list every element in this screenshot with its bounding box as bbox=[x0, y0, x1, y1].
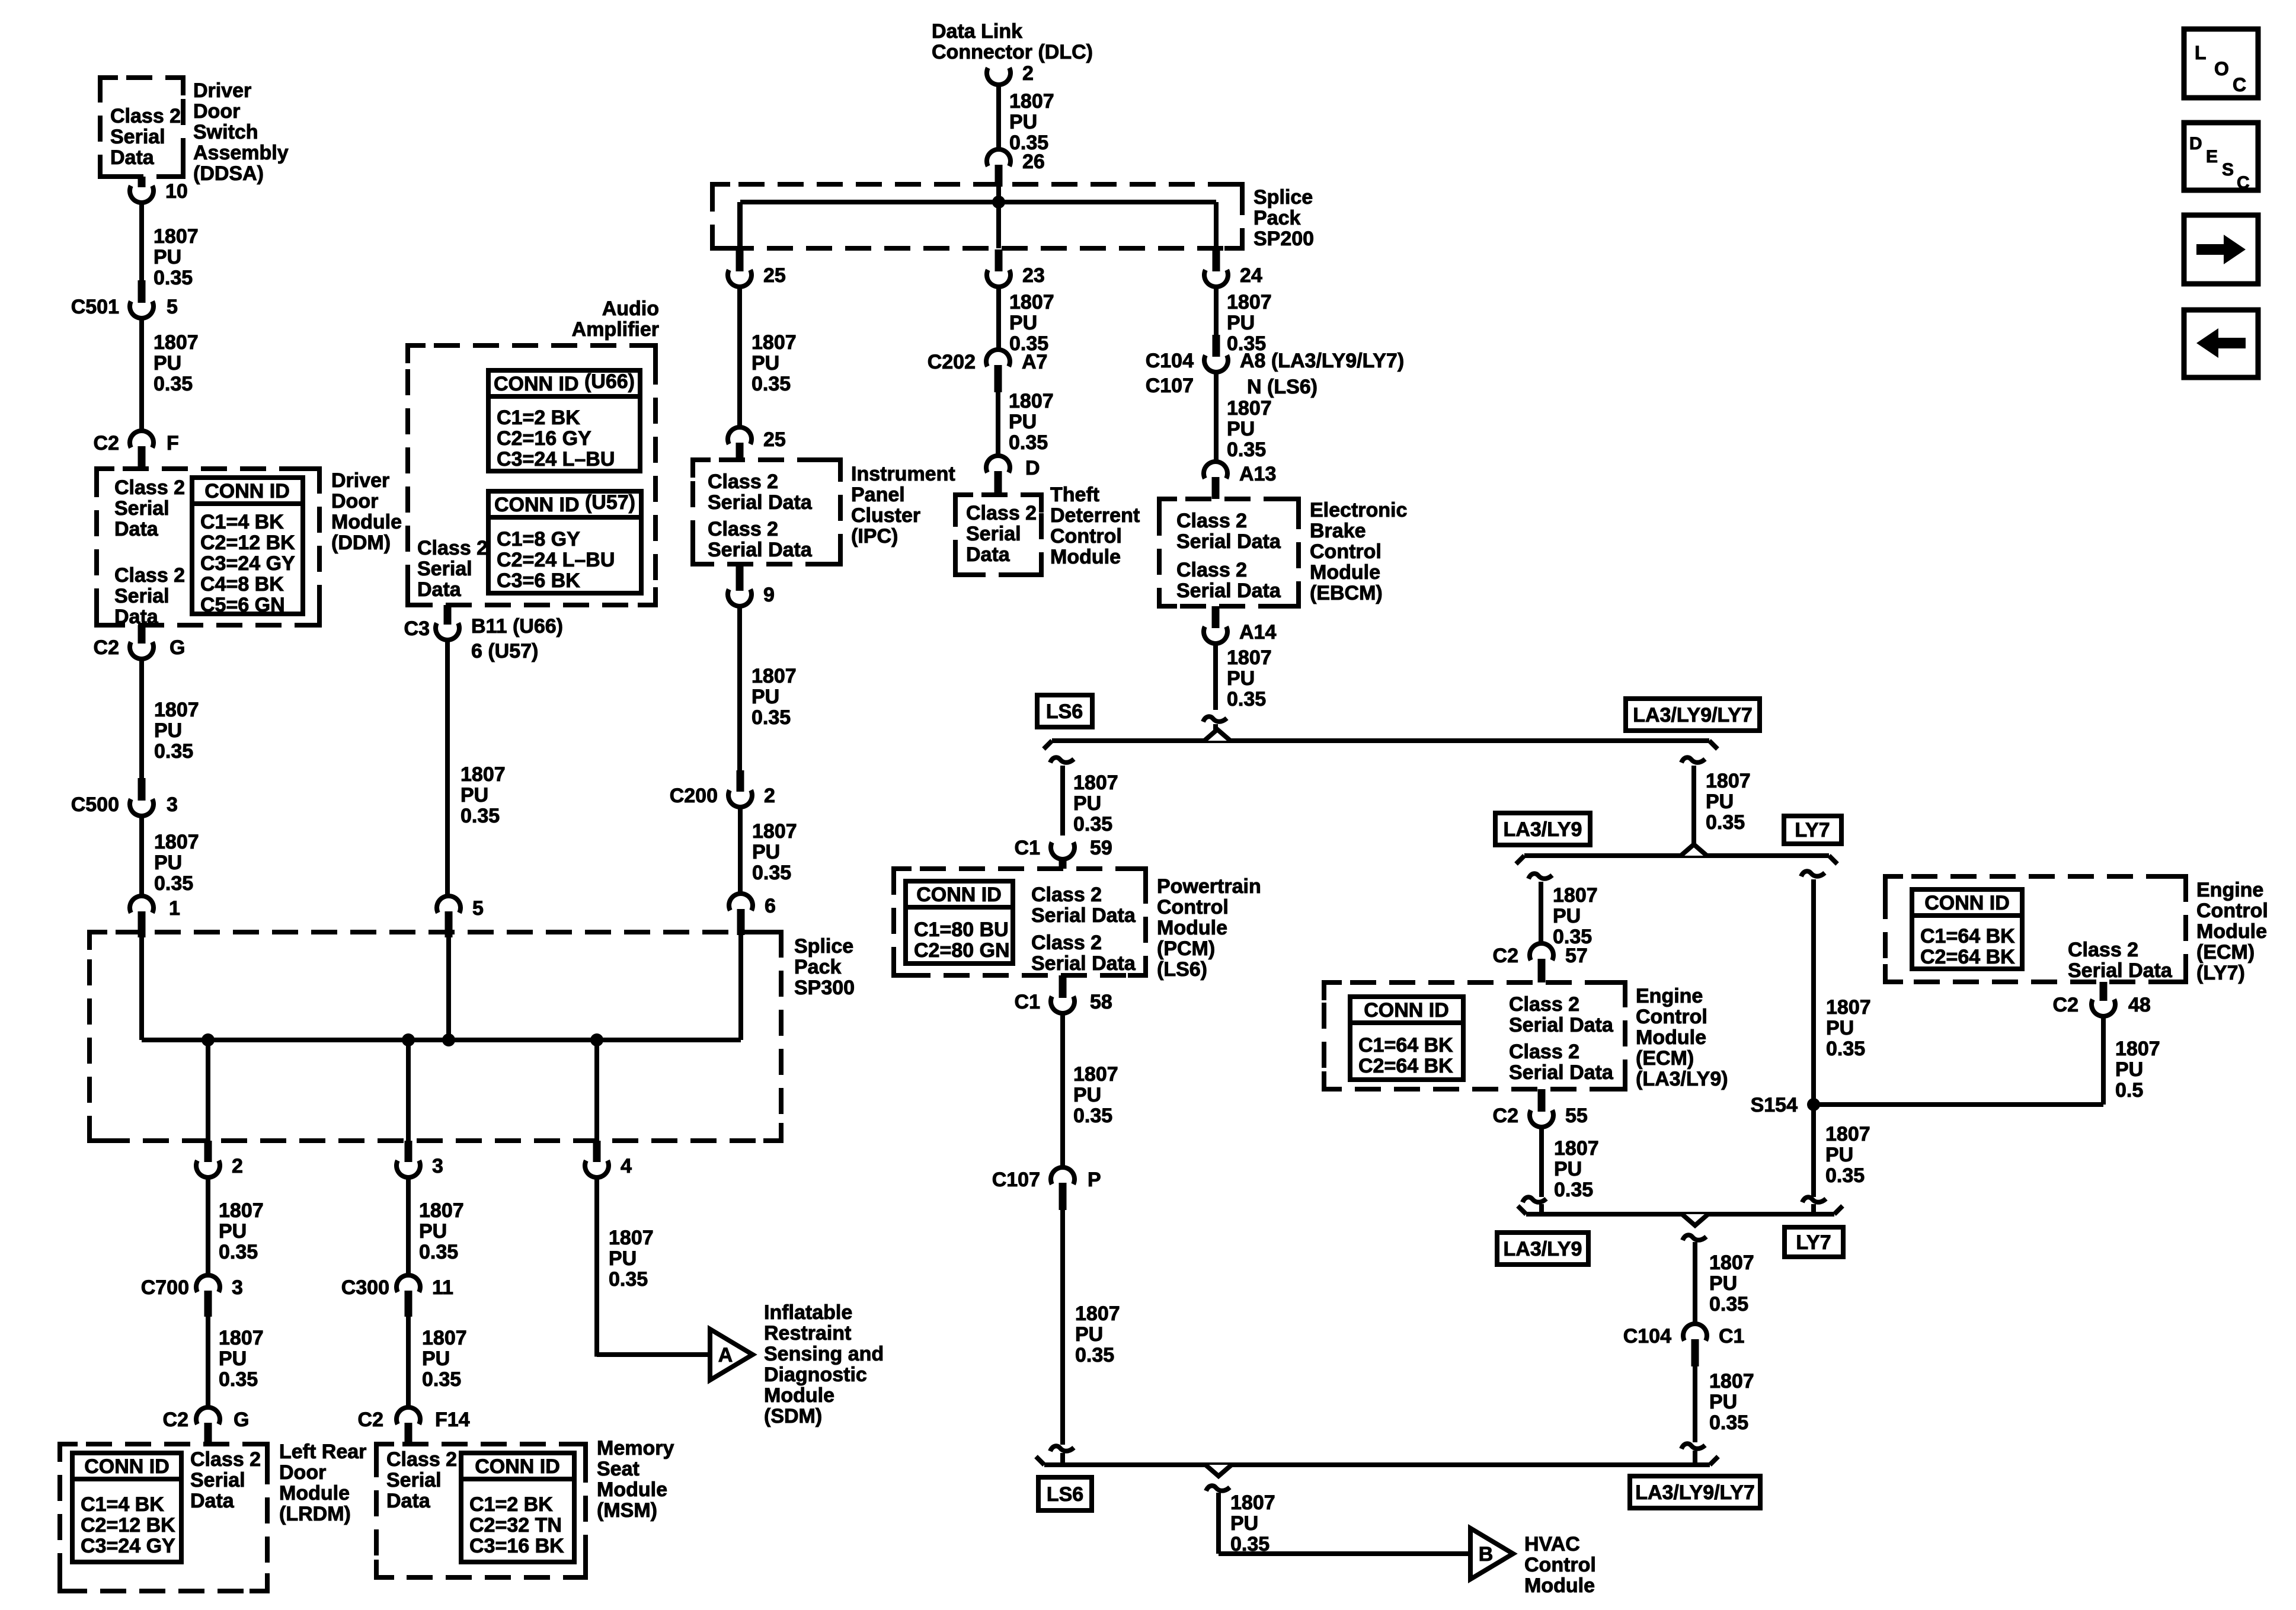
svg-text:PU: PU bbox=[419, 1220, 447, 1243]
svg-text:Left Rear: Left Rear bbox=[279, 1441, 366, 1463]
svg-text:PU: PU bbox=[154, 852, 182, 874]
svg-text:0.35: 0.35 bbox=[154, 373, 193, 395]
svg-text:55: 55 bbox=[1565, 1105, 1588, 1127]
svg-text:C2=64 BK: C2=64 BK bbox=[1920, 946, 2015, 968]
svg-text:Powertrain: Powertrain bbox=[1157, 875, 1261, 898]
svg-text:Data: Data bbox=[966, 543, 1011, 566]
svg-text:PU: PU bbox=[1073, 792, 1101, 815]
svg-text:S: S bbox=[2222, 160, 2234, 180]
svg-text:C2=32 TN: C2=32 TN bbox=[469, 1514, 562, 1537]
svg-text:Amplifier: Amplifier bbox=[572, 318, 659, 341]
svg-text:Audio: Audio bbox=[602, 297, 659, 320]
svg-text:C5=6 GN: C5=6 GN bbox=[200, 594, 285, 616]
svg-text:C2: C2 bbox=[2053, 994, 2078, 1016]
svg-text:Class 2: Class 2 bbox=[1031, 884, 1102, 906]
svg-text:Module: Module bbox=[2196, 920, 2267, 943]
svg-text:C2: C2 bbox=[1493, 945, 1518, 967]
svg-text:0.35: 0.35 bbox=[1554, 1179, 1593, 1201]
svg-text:Sensing and: Sensing and bbox=[764, 1343, 884, 1365]
svg-text:Assembly: Assembly bbox=[193, 142, 289, 164]
svg-text:0.35: 0.35 bbox=[154, 740, 193, 763]
svg-text:(LY7): (LY7) bbox=[2196, 962, 2245, 984]
svg-text:5: 5 bbox=[472, 897, 484, 920]
svg-text:Control: Control bbox=[1310, 540, 1382, 563]
svg-text:Serial: Serial bbox=[110, 126, 165, 148]
svg-text:Door: Door bbox=[331, 490, 378, 513]
svg-text:PU: PU bbox=[1227, 418, 1255, 440]
svg-text:C2: C2 bbox=[358, 1409, 383, 1431]
svg-text:PU: PU bbox=[154, 246, 181, 268]
svg-text:0.35: 0.35 bbox=[419, 1241, 458, 1263]
svg-text:L: L bbox=[2195, 42, 2207, 63]
svg-text:C3=24 L–BU: C3=24 L–BU bbox=[497, 448, 615, 470]
svg-text:N (LS6): N (LS6) bbox=[1247, 376, 1318, 398]
svg-text:C3=24 GY: C3=24 GY bbox=[81, 1535, 175, 1557]
svg-text:C104: C104 bbox=[1146, 350, 1194, 372]
svg-text:P: P bbox=[1088, 1169, 1101, 1191]
svg-text:(ECM): (ECM) bbox=[1636, 1047, 1694, 1070]
svg-text:C1=2 BK: C1=2 BK bbox=[469, 1493, 553, 1516]
svg-text:CONN ID (U57): CONN ID (U57) bbox=[494, 491, 635, 516]
svg-text:PU: PU bbox=[1709, 1391, 1737, 1413]
svg-text:Memory: Memory bbox=[597, 1437, 674, 1459]
svg-text:1807: 1807 bbox=[154, 699, 199, 721]
svg-text:Deterrent: Deterrent bbox=[1050, 504, 1140, 527]
svg-text:1807: 1807 bbox=[219, 1199, 264, 1222]
svg-text:Class 2: Class 2 bbox=[708, 518, 778, 540]
svg-text:C104: C104 bbox=[1623, 1325, 1671, 1347]
svg-text:Serial Data: Serial Data bbox=[708, 491, 813, 514]
svg-text:Data: Data bbox=[114, 518, 159, 540]
svg-text:C: C bbox=[2233, 74, 2246, 95]
svg-text:0.35: 0.35 bbox=[1709, 1411, 1748, 1434]
svg-text:Class 2: Class 2 bbox=[2068, 939, 2138, 961]
svg-text:48: 48 bbox=[2128, 994, 2151, 1016]
svg-text:0.35: 0.35 bbox=[1706, 811, 1745, 834]
svg-text:CONN ID: CONN ID bbox=[916, 884, 1002, 906]
svg-text:C2=80 GN: C2=80 GN bbox=[914, 939, 1010, 962]
svg-text:PU: PU bbox=[154, 719, 182, 742]
svg-text:A14: A14 bbox=[1239, 621, 1276, 644]
svg-text:9: 9 bbox=[763, 584, 775, 606]
svg-text:C3=24 GY: C3=24 GY bbox=[200, 552, 295, 575]
svg-text:C300: C300 bbox=[341, 1276, 389, 1299]
svg-text:PU: PU bbox=[1009, 411, 1037, 433]
svg-text:Control: Control bbox=[1524, 1554, 1596, 1576]
svg-text:0.35: 0.35 bbox=[219, 1368, 258, 1391]
svg-text:PU: PU bbox=[1553, 905, 1581, 927]
svg-text:3: 3 bbox=[167, 793, 178, 816]
svg-text:0.35: 0.35 bbox=[752, 706, 791, 729]
svg-text:6 (U57): 6 (U57) bbox=[471, 640, 538, 662]
svg-text:Class 2: Class 2 bbox=[966, 502, 1037, 524]
svg-text:1807: 1807 bbox=[422, 1327, 467, 1349]
svg-text:1807: 1807 bbox=[461, 763, 506, 786]
svg-text:1: 1 bbox=[169, 897, 180, 920]
svg-text:C700: C700 bbox=[141, 1276, 189, 1299]
svg-text:PU: PU bbox=[1230, 1512, 1258, 1535]
svg-text:Class 2: Class 2 bbox=[1176, 559, 1247, 581]
svg-text:Restraint: Restraint bbox=[764, 1322, 851, 1345]
svg-text:Brake: Brake bbox=[1310, 520, 1366, 542]
svg-text:PU: PU bbox=[1009, 111, 1037, 133]
svg-text:57: 57 bbox=[1565, 945, 1588, 967]
svg-text:E: E bbox=[2206, 147, 2218, 167]
svg-text:CONN ID (U66): CONN ID (U66) bbox=[494, 370, 635, 395]
svg-text:Class 2: Class 2 bbox=[1509, 1041, 1579, 1063]
svg-text:0.35: 0.35 bbox=[154, 872, 193, 895]
svg-text:1807: 1807 bbox=[1075, 1302, 1120, 1325]
svg-text:PU: PU bbox=[1706, 790, 1734, 813]
svg-text:LS6: LS6 bbox=[1046, 700, 1083, 723]
svg-text:0.35: 0.35 bbox=[461, 805, 500, 827]
svg-text:O: O bbox=[2214, 58, 2229, 79]
svg-text:A7: A7 bbox=[1022, 351, 1047, 373]
svg-text:Serial Data: Serial Data bbox=[708, 539, 813, 561]
svg-text:0.35: 0.35 bbox=[422, 1368, 461, 1391]
svg-text:3: 3 bbox=[232, 1276, 243, 1299]
svg-text:(LRDM): (LRDM) bbox=[279, 1503, 351, 1525]
svg-text:Serial: Serial bbox=[114, 497, 170, 520]
svg-text:0.35: 0.35 bbox=[1825, 1164, 1865, 1187]
svg-text:Serial Data: Serial Data bbox=[2068, 959, 2173, 982]
svg-text:A: A bbox=[718, 1344, 733, 1366]
svg-text:Class 2: Class 2 bbox=[1031, 932, 1102, 954]
svg-text:1807: 1807 bbox=[2115, 1038, 2160, 1060]
svg-text:Splice: Splice bbox=[794, 935, 853, 958]
svg-text:C1=4 BK: C1=4 BK bbox=[200, 511, 284, 533]
svg-text:A8 (LA3/LY9/LY7): A8 (LA3/LY9/LY7) bbox=[1240, 350, 1404, 372]
svg-text:Seat: Seat bbox=[597, 1458, 639, 1480]
svg-text:1807: 1807 bbox=[1709, 1370, 1754, 1393]
svg-text:0.35: 0.35 bbox=[752, 373, 791, 395]
svg-text:C2=64 BK: C2=64 BK bbox=[1358, 1055, 1453, 1077]
svg-text:0.35: 0.35 bbox=[1709, 1293, 1748, 1315]
svg-text:1807: 1807 bbox=[419, 1199, 464, 1222]
svg-text:58: 58 bbox=[1090, 991, 1112, 1013]
svg-text:Panel: Panel bbox=[851, 484, 905, 506]
svg-text:C2=16 GY: C2=16 GY bbox=[497, 427, 591, 450]
svg-text:1807: 1807 bbox=[1227, 397, 1272, 420]
svg-text:1807: 1807 bbox=[1009, 390, 1054, 412]
svg-text:B: B bbox=[1479, 1543, 1494, 1566]
svg-text:1807: 1807 bbox=[1009, 291, 1054, 313]
svg-text:PU: PU bbox=[461, 784, 488, 806]
svg-text:Class 2: Class 2 bbox=[114, 476, 185, 499]
svg-text:1807: 1807 bbox=[1553, 884, 1598, 907]
svg-text:G: G bbox=[234, 1409, 249, 1431]
svg-text:(MSM): (MSM) bbox=[597, 1499, 657, 1522]
svg-text:Module: Module bbox=[1050, 546, 1121, 568]
svg-text:Data: Data bbox=[110, 146, 155, 169]
svg-text:PU: PU bbox=[609, 1247, 637, 1270]
svg-text:C2: C2 bbox=[94, 432, 119, 454]
svg-text:C1: C1 bbox=[1015, 991, 1040, 1013]
svg-text:1807: 1807 bbox=[752, 331, 797, 354]
svg-text:Serial: Serial bbox=[966, 523, 1021, 545]
svg-text:Serial: Serial bbox=[190, 1469, 245, 1491]
svg-text:Control: Control bbox=[1636, 1006, 1707, 1028]
svg-text:1807: 1807 bbox=[1073, 1063, 1118, 1086]
svg-text:(DDSA): (DDSA) bbox=[193, 162, 264, 185]
svg-text:Pack: Pack bbox=[794, 956, 841, 978]
svg-text:(LS6): (LS6) bbox=[1157, 958, 1207, 981]
svg-text:PU: PU bbox=[1075, 1323, 1103, 1346]
svg-text:1807: 1807 bbox=[1709, 1251, 1754, 1274]
svg-text:1807: 1807 bbox=[1009, 90, 1054, 113]
svg-text:C1=64 BK: C1=64 BK bbox=[1920, 925, 2015, 948]
svg-text:Module: Module bbox=[764, 1384, 834, 1407]
svg-text:CONN ID: CONN ID bbox=[475, 1455, 560, 1478]
svg-text:F14: F14 bbox=[435, 1409, 470, 1431]
svg-text:B11 (U66): B11 (U66) bbox=[471, 615, 563, 638]
svg-text:1807: 1807 bbox=[609, 1227, 654, 1249]
svg-text:C1=2 BK: C1=2 BK bbox=[497, 406, 580, 429]
svg-text:F: F bbox=[167, 432, 179, 454]
svg-text:0.35: 0.35 bbox=[1073, 1105, 1112, 1127]
svg-text:0.35: 0.35 bbox=[609, 1268, 648, 1291]
svg-text:6: 6 bbox=[765, 895, 776, 917]
svg-text:PU: PU bbox=[422, 1347, 450, 1370]
svg-text:C3=16 BK: C3=16 BK bbox=[469, 1535, 564, 1557]
svg-text:Door: Door bbox=[279, 1461, 326, 1484]
svg-text:Data: Data bbox=[190, 1490, 235, 1512]
svg-text:Class 2: Class 2 bbox=[110, 105, 181, 127]
svg-text:LY7: LY7 bbox=[1796, 1231, 1831, 1254]
svg-text:C107: C107 bbox=[992, 1169, 1040, 1191]
svg-text:C1=4 BK: C1=4 BK bbox=[81, 1493, 164, 1516]
svg-text:1807: 1807 bbox=[1230, 1491, 1275, 1514]
svg-text:C1: C1 bbox=[1719, 1325, 1744, 1347]
svg-text:Door: Door bbox=[193, 100, 240, 123]
svg-text:PU: PU bbox=[1073, 1084, 1101, 1106]
svg-text:Serial Data: Serial Data bbox=[1509, 1014, 1614, 1036]
svg-text:CONN ID: CONN ID bbox=[1924, 892, 2010, 914]
svg-text:5: 5 bbox=[167, 296, 178, 318]
svg-text:G: G bbox=[170, 636, 185, 659]
svg-text:C3: C3 bbox=[404, 617, 430, 640]
svg-text:1807: 1807 bbox=[1706, 770, 1751, 792]
svg-text:C501: C501 bbox=[71, 296, 119, 318]
svg-text:Pack: Pack bbox=[1253, 207, 1300, 229]
svg-text:59: 59 bbox=[1090, 837, 1112, 859]
svg-text:1807: 1807 bbox=[1073, 772, 1118, 794]
svg-text:0.35: 0.35 bbox=[1075, 1344, 1114, 1366]
svg-text:LA3/LY9/LY7: LA3/LY9/LY7 bbox=[1635, 1481, 1755, 1504]
svg-text:PU: PU bbox=[219, 1220, 247, 1243]
svg-text:Data: Data bbox=[114, 606, 159, 628]
svg-text:Module: Module bbox=[1524, 1574, 1595, 1597]
svg-text:Control: Control bbox=[1157, 896, 1229, 918]
svg-text:1807: 1807 bbox=[1227, 646, 1272, 669]
svg-text:Splice: Splice bbox=[1253, 186, 1313, 209]
svg-text:Class 2: Class 2 bbox=[708, 470, 778, 493]
svg-text:Class 2: Class 2 bbox=[1509, 993, 1579, 1016]
svg-text:C107: C107 bbox=[1146, 375, 1194, 397]
svg-text:PU: PU bbox=[1826, 1017, 1854, 1039]
svg-text:0.35: 0.35 bbox=[1009, 431, 1048, 454]
svg-text:C202: C202 bbox=[928, 351, 976, 373]
svg-text:Serial Data: Serial Data bbox=[1031, 904, 1136, 927]
svg-text:Class 2: Class 2 bbox=[1176, 510, 1247, 532]
svg-text:Serial Data: Serial Data bbox=[1031, 952, 1136, 975]
svg-text:PU: PU bbox=[2115, 1058, 2143, 1081]
svg-text:Inflatable: Inflatable bbox=[764, 1301, 852, 1324]
svg-text:C2: C2 bbox=[163, 1409, 188, 1431]
svg-text:0.35: 0.35 bbox=[1227, 438, 1266, 461]
svg-text:Serial Data: Serial Data bbox=[1509, 1061, 1614, 1084]
svg-text:Module: Module bbox=[1157, 917, 1227, 939]
svg-text:1807: 1807 bbox=[154, 225, 199, 248]
svg-text:0.35: 0.35 bbox=[1227, 688, 1266, 710]
svg-text:0.35: 0.35 bbox=[1073, 813, 1112, 836]
svg-text:CONN ID: CONN ID bbox=[1364, 999, 1449, 1022]
svg-text:Module: Module bbox=[279, 1482, 350, 1505]
svg-text:LY7: LY7 bbox=[1795, 819, 1830, 841]
svg-text:Serial Data: Serial Data bbox=[1176, 530, 1281, 553]
svg-text:1807: 1807 bbox=[1825, 1123, 1870, 1145]
svg-text:C1=8 GY: C1=8 GY bbox=[497, 528, 580, 550]
svg-text:C2=24 L–BU: C2=24 L–BU bbox=[497, 549, 615, 571]
svg-text:Serial: Serial bbox=[417, 558, 472, 580]
svg-text:LA3/LY9/LY7: LA3/LY9/LY7 bbox=[1633, 704, 1753, 726]
svg-text:26: 26 bbox=[1022, 151, 1045, 173]
svg-text:Module: Module bbox=[597, 1478, 667, 1501]
svg-text:C2=12 BK: C2=12 BK bbox=[81, 1514, 175, 1537]
svg-text:PU: PU bbox=[154, 352, 181, 375]
svg-text:Data: Data bbox=[417, 578, 462, 601]
svg-text:24: 24 bbox=[1240, 264, 1262, 287]
svg-text:Class 2: Class 2 bbox=[190, 1448, 261, 1471]
svg-text:LS6: LS6 bbox=[1047, 1483, 1083, 1506]
svg-text:(EBCM): (EBCM) bbox=[1310, 582, 1383, 604]
svg-text:0.35: 0.35 bbox=[752, 862, 791, 884]
svg-text:C200: C200 bbox=[670, 785, 718, 807]
svg-text:Class 2: Class 2 bbox=[417, 537, 488, 559]
svg-text:(PCM): (PCM) bbox=[1157, 937, 1215, 960]
svg-text:2: 2 bbox=[1022, 62, 1034, 85]
svg-text:PU: PU bbox=[752, 841, 780, 863]
svg-text:Serial: Serial bbox=[114, 585, 170, 607]
svg-text:SP200: SP200 bbox=[1253, 228, 1314, 250]
svg-text:Serial: Serial bbox=[386, 1469, 442, 1491]
svg-text:LA3/LY9: LA3/LY9 bbox=[1504, 1238, 1582, 1260]
svg-text:PU: PU bbox=[1227, 667, 1255, 690]
svg-text:4: 4 bbox=[621, 1155, 632, 1177]
svg-text:Diagnostic: Diagnostic bbox=[764, 1363, 867, 1386]
svg-text:Serial Data: Serial Data bbox=[1176, 580, 1281, 602]
svg-text:C500: C500 bbox=[71, 793, 119, 816]
svg-text:1807: 1807 bbox=[752, 820, 797, 843]
svg-text:2: 2 bbox=[232, 1155, 243, 1177]
svg-text:CONN ID: CONN ID bbox=[84, 1455, 170, 1478]
svg-text:Connector (DLC): Connector (DLC) bbox=[932, 41, 1093, 63]
svg-text:SP300: SP300 bbox=[794, 977, 855, 999]
svg-text:Class 2: Class 2 bbox=[386, 1448, 457, 1471]
svg-text:(DDM): (DDM) bbox=[331, 532, 391, 554]
svg-text:C1=80 BU: C1=80 BU bbox=[914, 918, 1009, 941]
svg-text:(LA3/LY9): (LA3/LY9) bbox=[1636, 1068, 1728, 1090]
svg-text:PU: PU bbox=[1709, 1272, 1737, 1295]
svg-text:C2=12 BK: C2=12 BK bbox=[200, 532, 295, 554]
svg-text:3: 3 bbox=[432, 1155, 443, 1177]
svg-text:Module: Module bbox=[1636, 1026, 1706, 1049]
svg-text:1807: 1807 bbox=[1826, 996, 1871, 1019]
svg-text:10: 10 bbox=[165, 180, 188, 203]
svg-text:(SDM): (SDM) bbox=[764, 1405, 822, 1427]
svg-text:1807: 1807 bbox=[154, 831, 199, 853]
svg-text:Data: Data bbox=[386, 1490, 431, 1512]
svg-text:25: 25 bbox=[763, 428, 786, 451]
svg-text:PU: PU bbox=[1554, 1158, 1582, 1180]
svg-text:C2: C2 bbox=[1493, 1105, 1518, 1127]
svg-text:Control: Control bbox=[2196, 900, 2268, 922]
svg-text:25: 25 bbox=[763, 264, 786, 287]
svg-text:Electronic: Electronic bbox=[1310, 499, 1407, 521]
svg-text:Cluster: Cluster bbox=[851, 504, 920, 527]
svg-text:Theft: Theft bbox=[1050, 484, 1099, 506]
svg-text:1807: 1807 bbox=[1227, 291, 1272, 313]
svg-text:23: 23 bbox=[1022, 264, 1045, 287]
svg-text:PU: PU bbox=[752, 686, 779, 708]
svg-text:Instrument: Instrument bbox=[851, 463, 955, 485]
svg-text:PU: PU bbox=[1227, 312, 1255, 334]
svg-text:C: C bbox=[2237, 173, 2250, 193]
svg-text:Module: Module bbox=[331, 511, 402, 533]
svg-text:D: D bbox=[2189, 134, 2202, 153]
svg-text:0.35: 0.35 bbox=[1826, 1038, 1865, 1060]
svg-text:A13: A13 bbox=[1239, 463, 1276, 485]
svg-text:C1=64 BK: C1=64 BK bbox=[1358, 1034, 1453, 1057]
svg-text:PU: PU bbox=[219, 1347, 247, 1370]
svg-text:0.5: 0.5 bbox=[2115, 1079, 2143, 1102]
svg-text:CONN ID: CONN ID bbox=[204, 480, 290, 502]
svg-text:1807: 1807 bbox=[154, 331, 199, 354]
svg-text:HVAC: HVAC bbox=[1524, 1533, 1580, 1555]
svg-text:Switch: Switch bbox=[193, 121, 258, 143]
svg-text:LA3/LY9: LA3/LY9 bbox=[1504, 818, 1582, 841]
svg-text:11: 11 bbox=[432, 1276, 453, 1299]
svg-text:Class 2: Class 2 bbox=[114, 564, 185, 587]
svg-text:1807: 1807 bbox=[1554, 1137, 1599, 1160]
svg-text:PU: PU bbox=[752, 352, 779, 375]
svg-text:Engine: Engine bbox=[2196, 879, 2263, 901]
svg-text:0.35: 0.35 bbox=[219, 1241, 258, 1263]
svg-text:C4=8 BK: C4=8 BK bbox=[200, 573, 284, 596]
svg-text:2: 2 bbox=[764, 785, 775, 807]
svg-text:Driver: Driver bbox=[193, 79, 251, 102]
svg-text:1807: 1807 bbox=[219, 1327, 264, 1349]
svg-text:PU: PU bbox=[1825, 1144, 1853, 1166]
svg-text:PU: PU bbox=[1009, 312, 1037, 334]
svg-text:C1: C1 bbox=[1015, 837, 1040, 859]
svg-text:Data Link: Data Link bbox=[932, 20, 1022, 43]
svg-text:Module: Module bbox=[1310, 561, 1380, 584]
svg-text:(ECM): (ECM) bbox=[2196, 941, 2255, 964]
svg-text:(IPC): (IPC) bbox=[851, 525, 898, 548]
svg-text:Engine: Engine bbox=[1636, 985, 1703, 1007]
svg-text:0.35: 0.35 bbox=[154, 267, 193, 289]
svg-text:C2: C2 bbox=[94, 636, 119, 659]
svg-text:C3=6 BK: C3=6 BK bbox=[497, 569, 580, 592]
svg-text:Control: Control bbox=[1050, 525, 1122, 548]
svg-text:Driver: Driver bbox=[331, 469, 389, 492]
svg-text:S154: S154 bbox=[1751, 1094, 1798, 1116]
svg-text:D: D bbox=[1025, 457, 1040, 479]
svg-text:1807: 1807 bbox=[752, 665, 797, 687]
